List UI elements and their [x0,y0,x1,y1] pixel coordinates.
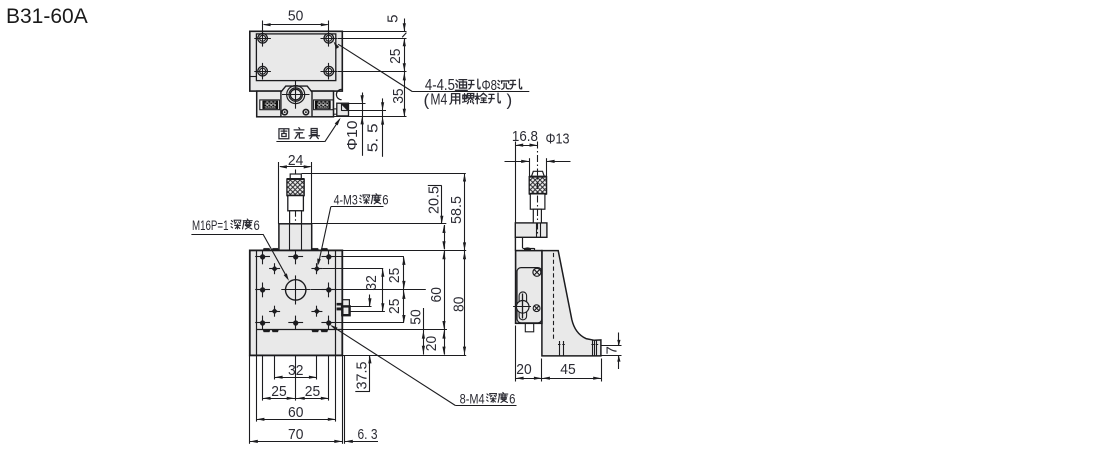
svg-text:32: 32 [288,362,303,379]
svg-text:32: 32 [363,275,380,290]
dimension 5 tick marks [402,33,406,38]
svg-text:60: 60 [428,287,445,302]
front view micrometer centerline [295,170,297,175]
svg-text:25: 25 [386,299,403,314]
top view corner screw hole bottom-right [324,66,334,76]
front view M3 holes diamonds [272,266,278,272]
dimension 5.5 fixture [349,110,387,112]
side view hidden line vertical [553,253,555,341]
top view micrometer boss circles [287,86,305,104]
leader 4-4.5 through hole annotation [338,44,412,91]
dimension 6.3 bottom [345,441,378,443]
side view stage body [516,251,542,324]
top view saddle screw right [303,109,308,114]
top view corner screw hole top-right [324,34,334,44]
front view side fixture [343,300,350,307]
svg-text:50: 50 [288,7,303,24]
dimension 50 front [423,308,425,355]
top view left strip step line [250,76,257,78]
svg-text:6: 6 [509,391,515,406]
top view side fixture small step [334,109,337,114]
side view micrometer stem [533,209,541,223]
witness lines 24 [278,162,280,224]
svg-text:B31-60A: B31-60A [6,5,88,28]
svg-text:6: 6 [382,193,388,208]
svg-text:70: 70 [288,426,303,443]
side view wall continuity [514,237,516,250]
side view clamp lever circle [516,301,529,314]
dimension 58.5 [464,174,466,251]
svg-text:5. 5: 5. 5 [365,123,382,152]
svg-text:50: 50 [407,309,424,324]
dimension 5 top view [404,19,406,32]
dimension 20 side [515,326,517,382]
top view central boss block [281,86,312,117]
svg-text:Φ13: Φ13 [546,131,570,148]
side view mount block [515,223,547,237]
front view right witness lines [302,173,466,175]
dimension 70 bottom [250,441,342,443]
svg-text:20: 20 [516,361,531,378]
side view foot bolt hole left [559,341,561,356]
svg-text:25: 25 [387,49,404,64]
dimension 25 25 front [403,257,405,323]
dimension 32 bottom [275,377,317,379]
side view foot bolt hole right tip [592,340,594,356]
side view spindle contact black [524,247,531,250]
dimension 60 bottom [256,419,335,421]
side view foot tab [525,323,533,332]
fixture label leader [276,141,324,143]
svg-text:60: 60 [288,404,303,421]
front view inner plate edges [256,250,258,355]
side view micrometer centerline [537,142,539,237]
svg-text:25: 25 [386,268,403,283]
top view saddle screw left [282,109,287,114]
side view micrometer cap [531,171,544,176]
dimension 25 top view [404,38,406,71]
side view bracket gusset and foot [542,251,601,356]
front view mount block [279,224,312,251]
top view corner screw hole top-left [258,34,268,44]
side view clamp jaw [522,237,524,248]
svg-text:6: 6 [254,218,260,233]
fixture label text [279,129,289,139]
top view corner screw hole bottom-left [258,66,268,76]
svg-text:7: 7 [603,346,620,354]
dimension 60 front [444,250,446,354]
top view right edge arc boss [336,89,341,99]
side view carriage screw bottom [533,305,540,312]
dimension 32 front [382,269,384,312]
witness lines right of top view [342,31,406,33]
dimension 80 front [464,250,466,355]
front view clamp feet top [263,248,271,250]
dimension 37.5 [369,295,371,307]
front view clamp feet bottom [263,330,271,332]
front view micrometer stem [290,211,302,224]
dimension 20.5 [428,185,442,187]
side view micrometer barrel [530,194,545,209]
svg-text:): ) [507,90,513,109]
svg-text:45: 45 [560,361,575,378]
front view base split line [256,329,342,331]
top view base plate [250,31,342,91]
dimension 25 25 bottom [263,398,329,400]
svg-text:M16P=1: M16P=1 [192,218,229,233]
svg-text:5: 5 [385,15,402,23]
top view right clamp pad recess [314,100,334,110]
dimension 35 top view [404,71,406,117]
svg-text:80: 80 [450,297,467,312]
front view micrometer barrel [288,196,304,211]
svg-text:6. 3: 6. 3 [358,426,378,443]
svg-text:(: ( [424,90,430,109]
svg-text:Φ8: Φ8 [482,77,498,94]
side view carriage rounded rect [517,268,542,323]
svg-text:25: 25 [305,383,320,400]
front view main plate [250,250,342,355]
side view micrometer knurl [529,177,546,194]
front view micrometer knurled thimble [287,179,304,196]
dimension 45 side [542,378,601,380]
front view M4 hole grid [260,254,265,259]
svg-text:M4: M4 [430,92,447,109]
svg-text:25: 25 [271,383,286,400]
svg-text:20.5: 20.5 [426,186,443,214]
svg-text:Φ10: Φ10 [344,121,361,151]
top view side fixture body [337,103,349,116]
svg-text:8-M4: 8-M4 [460,391,485,406]
dimension 7 side [601,345,622,347]
top view side fixture inner line [341,103,343,111]
front view micrometer cap [290,174,301,179]
svg-text:37.5: 37.5 [353,362,370,390]
top view saddle body [257,91,334,117]
svg-text:4-M3: 4-M3 [334,193,358,208]
dimension 24 line [280,166,311,168]
top view right knurled pad [316,101,331,109]
top view left knurled pad [263,101,278,109]
front view bottom witness lines [249,355,251,443]
front view central M16 hole [286,280,306,300]
side view carriage screw top [533,268,541,276]
svg-text:58.5: 58.5 [448,196,465,224]
top view left clamp pad recess [260,100,280,110]
top view inner plate [256,34,335,81]
side view clamp lever slot [519,292,527,320]
dimension phi10 fixture [349,103,366,105]
svg-text:35: 35 [390,88,407,103]
top view side fixture black wedge [341,104,348,111]
svg-text:20: 20 [423,336,440,351]
